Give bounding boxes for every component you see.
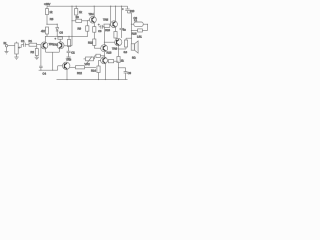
preset VR2 [84,56,95,66]
speaker LS1 [131,36,142,60]
resistor R13 [114,27,117,40]
wire TR7 emitter down [103,52,105,57]
resistor R9 [78,20,89,37]
capacitor C10 [122,6,135,13]
resistor R4 [75,6,83,20]
ground C2 [66,57,70,59]
svg-text:R2: R2 [31,51,35,54]
svg-text:TR4: TR4 [89,13,95,16]
wire TR8 emitter to rail [104,63,106,79]
wire top supply rail [47,5,128,7]
capacitor C6 [120,6,127,38]
resistor R2 [31,46,39,55]
resistor R8 [71,16,89,22]
wire TR1 collector [44,36,46,42]
svg-text:R9: R9 [78,28,82,31]
wire TR4 collector to rail [93,6,95,17]
transistor TR7 driver [101,45,108,52]
wire emitters join [45,48,47,52]
svg-text:0.5: 0.5 [124,51,128,54]
transistor TR5 [103,19,117,28]
capacitor C4 [39,66,46,75]
svg-text:+28V: +28V [44,3,51,6]
transistor TR3 [62,59,71,70]
resistor R17 [117,57,124,63]
capacitor C9 [118,67,132,79]
ground R2 [35,56,39,60]
svg-text:1n: 1n [123,29,126,32]
svg-text:C9: C9 [128,72,132,75]
capacitor C5 on TR2 collector [59,35,61,38]
wire TR3 emitter to rail [66,69,68,80]
svg-text:VR2: VR2 [85,63,91,66]
resistor R5 [41,27,49,36]
ground [5,47,9,54]
svg-text:TR6: TR6 [112,47,118,50]
resistor R15 [118,38,132,50]
svg-text:C1: C1 [21,40,25,43]
wire bottom rail [57,79,128,81]
svg-text:TR2: TR2 [53,44,59,47]
svg-text:C2: C2 [71,52,75,55]
svg-text:+: + [98,23,100,26]
wire TR3 base [57,66,59,70]
wire input to pot [8,45,15,47]
svg-text:R14: R14 [91,69,96,72]
svg-text:TR3: TR3 [66,59,72,62]
wire TR1 base node down [40,45,42,66]
svg-text:TR5: TR5 [103,19,109,22]
transistor TR6 [115,39,122,46]
transistor TR2 [53,42,64,49]
svg-text:1k: 1k [50,11,53,14]
svg-text:C4: C4 [43,72,47,75]
resistor R7 [70,66,96,75]
svg-text:R12: R12 [77,72,82,75]
resistor R6 [67,36,70,46]
wire TR6 emitter down [118,46,120,57]
svg-text:C5: C5 [59,31,63,34]
svg-text:R8: R8 [76,16,80,19]
svg-text:8Ω: 8Ω [132,56,136,59]
inductor L1 network [131,13,148,44]
capacitor C2 [67,51,76,57]
svg-text:4k7: 4k7 [41,30,46,33]
wire rail to TR5 base node [110,6,112,24]
svg-text:1k: 1k [79,11,82,14]
wire collector bus [45,35,87,37]
wire TR7 collector up [103,27,105,45]
resistor R14 [91,66,100,80]
svg-text:1k: 1k [121,59,124,62]
svg-text:220: 220 [130,10,135,13]
svg-text:LS1: LS1 [137,36,142,39]
svg-text:L1: L1 [134,19,137,22]
svg-text:R13: R13 [107,52,112,55]
svg-text:+: + [55,37,57,40]
wire TR8 base [99,59,101,61]
capacitor C1 [21,40,29,47]
capacitor C3 [98,23,104,28]
resistor R10 [93,22,96,39]
svg-text:+: + [122,8,124,11]
wire long vertical feedback [71,6,73,46]
transistor TR1 [41,42,54,49]
svg-text:R1: R1 [29,40,33,43]
wire bottom left rail [39,69,58,71]
resistor R18 [95,54,105,57]
svg-text:R11: R11 [88,42,93,45]
resistor R19 [107,60,118,63]
svg-text:C3: C3 [98,30,102,33]
transistor TR4 [89,13,97,23]
wire TR5 collector to rail [115,6,117,21]
potentiometer VR1 [15,42,21,54]
wire tail [52,52,54,70]
transistor TR8 output [101,57,108,64]
diode D1 [56,24,64,36]
svg-text:R10: R10 [105,29,110,32]
resistor R11 [88,39,101,48]
svg-text:R5: R5 [50,18,54,21]
resistor R12 bootstrap [104,24,111,27]
ground pot [14,54,18,59]
wire TR6 base [104,41,114,43]
resistor R3 [46,6,53,24]
wire TR2 base [64,45,72,47]
resistor R1 [29,40,41,46]
wire node to D1 [47,23,57,25]
